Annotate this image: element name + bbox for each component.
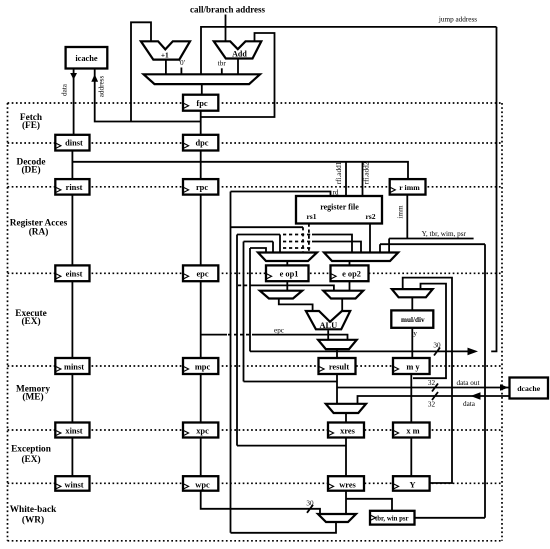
svg-text:rpc: rpc [196, 183, 208, 192]
wire fpc output to icache address [95, 69, 201, 122]
adder +1 funnel [141, 41, 190, 59]
wire e op1 mux output [286, 261, 288, 265]
svg-text:tbr: tbr [218, 60, 227, 68]
icache box [66, 47, 108, 69]
svg-text:(WR): (WR) [22, 515, 44, 526]
register e op2 [331, 265, 369, 281]
pipeline boundary dotted left border [7, 103, 9, 541]
wire rd from writeback into register file [231, 192, 331, 197]
wire result mux output to result [336, 349, 338, 358]
svg-text:xres: xres [340, 427, 355, 436]
svg-text:dcache: dcache [517, 384, 540, 393]
wire imm drop into e op2 mux [388, 239, 390, 253]
svg-text:rs2: rs2 [365, 212, 375, 221]
clock einst [56, 274, 61, 279]
wire epc to mpc [200, 281, 202, 358]
clock x m [394, 431, 399, 436]
wire tbr stub into fetch mux [221, 68, 223, 74]
register rpc [183, 179, 218, 195]
svg-text:address: address [98, 76, 106, 98]
wire '0' stub into fetch mux [180, 68, 182, 75]
register wpc [183, 476, 218, 491]
svg-text:rfi.add1: rfi.add1 [335, 161, 343, 184]
wire data out to dcache [337, 387, 509, 389]
svg-text:White-back: White-back [10, 505, 57, 515]
svg-text:(EX): (EX) [21, 316, 40, 327]
wire epc to result mux right input [252, 335, 348, 340]
svg-text:(EX): (EX) [21, 454, 40, 465]
dcache box [510, 378, 549, 399]
wire wres to tbr win psr register [346, 499, 392, 511]
wire e op1 tap dashed crossing [238, 284, 249, 286]
wire writeback mux output to v1 [231, 522, 337, 533]
svg-text:call/branch address: call/branch address [190, 5, 266, 15]
clock m y [394, 367, 399, 372]
register xres [328, 423, 364, 438]
wire v2 bypass dashed crossing [283, 234, 312, 236]
mux result select [318, 340, 357, 349]
wire rs2 into e op2 mux [369, 224, 371, 253]
register minst [55, 358, 89, 374]
slash bus mark 30 on jump line [434, 348, 440, 356]
svg-text:'0': '0' [179, 59, 185, 67]
svg-text:register file: register file [320, 203, 359, 212]
svg-text:result: result [329, 363, 350, 372]
wire v4 bypass horizontal [250, 248, 266, 253]
mux shift2 below e op2 [323, 291, 363, 299]
clock dinst [56, 143, 61, 148]
wire writeback vertical v1 [230, 192, 232, 533]
clock epc [184, 274, 189, 279]
svg-text:mul/div: mul/div [401, 316, 425, 324]
wire xres bypass tap [237, 445, 346, 447]
svg-text:Y, tbr, wim, psr: Y, tbr, wim, psr [422, 230, 467, 238]
wire v3 drop into e op1 mux [272, 242, 274, 253]
wire rpc to epc [200, 195, 202, 266]
register Y [393, 476, 430, 491]
svg-text:epc: epc [274, 327, 284, 335]
wire Y tbr wim psr drop into e op2 mux [379, 244, 381, 252]
wire v3 bypass horizontal [244, 241, 274, 243]
wire e op2 mux output [349, 261, 351, 265]
stage dotted line FE/DE (through dinst dpc) [8, 142, 503, 144]
wire dinst to rinst [71, 151, 73, 180]
wire m y loop into mul div mux right [413, 284, 446, 379]
wire dinst output decode bus to r imm [72, 162, 408, 179]
wire Y loop into mul div mux left [403, 278, 452, 483]
register winst [55, 476, 89, 491]
svg-text:data out: data out [457, 379, 480, 387]
wire result bypass vertical v3 [243, 242, 245, 382]
svg-text:ALU: ALU [319, 321, 337, 330]
wire epc value to result mux [201, 334, 227, 336]
clock tbr win psr [371, 515, 376, 520]
clock r imm [390, 187, 395, 192]
clock rinst [56, 187, 61, 192]
wire wres to writeback mux [345, 491, 347, 514]
wire dpc to rpc [200, 151, 202, 180]
slash bus mark 30 on wpc line [307, 505, 313, 513]
svg-text:xpc: xpc [196, 427, 209, 436]
svg-text:rd: rd [333, 189, 339, 197]
svg-text:jump address: jump address [438, 16, 477, 24]
wire rfi.add1 drop to register file [345, 162, 347, 196]
wire xres to wres [345, 438, 347, 477]
register result [319, 358, 356, 374]
clock winst [56, 484, 61, 489]
clock Y [394, 484, 399, 489]
stage dotted line FE top (through fpc) [8, 102, 503, 104]
clock wres [329, 484, 334, 489]
svg-text:Exception: Exception [11, 445, 52, 455]
svg-text:wpc: wpc [195, 480, 210, 489]
wire e op1 output into shift mux [286, 281, 288, 291]
arrowhead data out into dcache [500, 384, 509, 391]
mux fetch pc select [144, 74, 260, 84]
wire fpc to dpc [200, 111, 202, 135]
clock minst [56, 367, 61, 372]
svg-text:Add: Add [232, 49, 247, 58]
wire v1 bypass drop dashed into e op1 mux [302, 227, 304, 252]
register einst [55, 265, 89, 281]
clock dpc [184, 143, 189, 148]
stage dotted line XE/WR (through winst wpc wres Y) [8, 482, 503, 484]
svg-text:r imm: r imm [399, 183, 420, 192]
wire minst to xinst [71, 374, 73, 423]
svg-text:Y: Y [409, 480, 415, 489]
wire tbr win psr output to Y bus [415, 517, 486, 519]
wire result bypass tap left [244, 381, 338, 383]
wire xres bypass vertical v2 [236, 235, 238, 446]
stage dotted line DE/RA (through rinst rpc r imm) [8, 186, 503, 188]
mux e op1 select [258, 253, 317, 262]
svg-text:y: y [413, 330, 417, 338]
mux mul div input select [392, 289, 433, 297]
svg-text:wres: wres [339, 480, 356, 489]
svg-text:30: 30 [433, 342, 441, 350]
wire epc dashed crossings [228, 334, 252, 336]
svg-text:(RA): (RA) [29, 227, 49, 238]
svg-text:winst: winst [64, 480, 83, 489]
wire v3 bypass to e op2 mux [312, 242, 361, 253]
wire imm from r imm down [406, 195, 408, 239]
wire data from dcache [358, 396, 509, 404]
clock e op2 [331, 274, 336, 279]
wire v2 bypass horizontal [237, 234, 280, 236]
clock xinst [56, 431, 61, 436]
register dinst [55, 135, 89, 151]
wire v2 bypass to e op2 mux [312, 235, 352, 253]
wire call/branch address into Add [225, 15, 227, 41]
clock wpc [184, 484, 189, 489]
wire x m to Y [410, 438, 412, 477]
wire rs1 dashed into e op1 mux [308, 224, 310, 253]
wire xres mux output [345, 413, 347, 423]
svg-text:xinst: xinst [65, 427, 82, 436]
svg-text:+1: +1 [161, 51, 169, 60]
svg-text:e op1: e op1 [280, 270, 299, 279]
wire e op1 bypass vertical v4 [249, 248, 251, 351]
arrowhead data down [70, 73, 77, 80]
register file box [296, 196, 382, 224]
wire mpc to xpc [200, 374, 202, 423]
adder Add funnel [214, 41, 261, 58]
wire Y tbr wim psr vertical from tbr register [484, 244, 486, 518]
wire mul div output y to m y [411, 328, 413, 358]
register xinst [55, 423, 89, 438]
wire result output down to xres mux [336, 374, 338, 404]
wire wpc to writeback mux [201, 491, 320, 514]
slash bus mark 32 data [432, 392, 438, 400]
svg-text:30: 30 [306, 500, 314, 508]
ALU U1 [306, 311, 350, 329]
register x m [393, 423, 430, 438]
svg-text:icache: icache [75, 54, 98, 63]
register fpc [183, 95, 218, 111]
wire +1 output to fetch mux [165, 60, 167, 75]
wire fetch mux output to fpc [201, 84, 203, 95]
register r imm [390, 179, 426, 195]
mux e op2 select [324, 253, 398, 262]
wire jump address horizontal top [201, 27, 497, 74]
clock result [319, 367, 324, 372]
wire v1 bypass branch horizontal [231, 226, 304, 228]
clock rpc [184, 187, 189, 192]
svg-text:tbr, win psr: tbr, win psr [375, 516, 409, 523]
svg-text:x m: x m [406, 427, 419, 436]
wire v4 bypass dashed crossing [283, 247, 312, 249]
register m y [393, 358, 430, 374]
mux shift1 below e op1 [260, 291, 302, 299]
clock fpc [184, 103, 189, 108]
wire xpc to wpc [200, 438, 202, 477]
svg-text:rs1: rs1 [306, 212, 316, 221]
wire v3 bypass dashed crossing [283, 241, 312, 243]
register tbr win psr [370, 511, 415, 525]
mul div unit box [391, 310, 433, 327]
register wres [328, 476, 364, 491]
clock mpc [184, 367, 189, 372]
wire Add output to fetch mux [237, 59, 239, 75]
svg-text:data: data [61, 83, 69, 96]
svg-text:dpc: dpc [195, 139, 208, 148]
svg-text:imm: imm [397, 205, 405, 219]
stage dotted line ME/XE (through xinst xpc xres x m) [8, 429, 503, 431]
arrowhead jump line [468, 348, 479, 356]
svg-text:(ME): (ME) [22, 392, 43, 403]
register epc [183, 265, 218, 281]
svg-text:minst: minst [64, 363, 84, 372]
mux xres select [326, 404, 366, 413]
svg-text:dinst: dinst [65, 139, 83, 148]
wire Y tbr wim psr bus horizontal [380, 243, 485, 245]
svg-text:32: 32 [428, 401, 436, 409]
svg-text:32: 32 [428, 379, 436, 387]
wire rfi.add2 drop to register file [362, 162, 364, 196]
wire shift mux2 output to ALU right [341, 299, 343, 312]
svg-text:fpc: fpc [196, 99, 207, 108]
pipeline boundary dotted bottom border [8, 540, 503, 542]
clock e op1 [267, 274, 272, 279]
wire rinst to einst [71, 195, 73, 266]
svg-text:(FE): (FE) [22, 120, 40, 131]
svg-text:data: data [463, 400, 476, 408]
stage dotted line RA/EX (through einst epc e op1 e op2) [8, 272, 503, 274]
register mpc [183, 358, 218, 374]
svg-text:rfi.add2: rfi.add2 [363, 161, 371, 184]
wire xinst to winst [71, 438, 73, 477]
svg-text:epc: epc [196, 270, 208, 279]
register e op1 [266, 265, 309, 281]
clock xpc [184, 431, 189, 436]
svg-text:(DE): (DE) [21, 165, 40, 176]
slash bus mark 32 data out [432, 384, 438, 392]
wire e op2 output into shift mux [349, 281, 351, 291]
wire fpc to +1 loop [131, 22, 151, 121]
svg-text:m y: m y [406, 363, 420, 372]
wire mul div mux output [411, 297, 413, 310]
register rinst [55, 179, 89, 195]
svg-text:rinst: rinst [66, 183, 83, 192]
pipeline boundary dotted right border [501, 103, 503, 541]
wire icache data down to dinst [73, 69, 75, 135]
arrowhead address up into icache [91, 74, 98, 82]
wire einst to minst [71, 281, 73, 358]
wire fpc output to Add loop [201, 33, 275, 117]
clock xres [329, 431, 334, 436]
svg-text:einst: einst [66, 270, 83, 279]
wire e op1 output horizontal tap [250, 285, 334, 290]
svg-text:mpc: mpc [195, 363, 211, 372]
register xpc [183, 423, 218, 438]
register dpc [183, 135, 218, 151]
mux writeback select [318, 514, 356, 522]
wire m y output to x m [410, 374, 412, 423]
svg-text:e op2: e op2 [342, 270, 361, 279]
wire v2 drop into e op1 mux [279, 235, 281, 253]
wire shift mux1 output to ALU left [279, 299, 313, 312]
wire jump address right vertical [491, 27, 496, 352]
wire 30-bit jump address line with arrow [250, 350, 473, 352]
stage dotted line EX/ME (through minst mpc result m y) [8, 365, 503, 367]
wire imm horizontal bus [389, 238, 474, 240]
arrowhead data into pipeline [471, 392, 481, 400]
wire ALU output to result mux [327, 330, 329, 340]
